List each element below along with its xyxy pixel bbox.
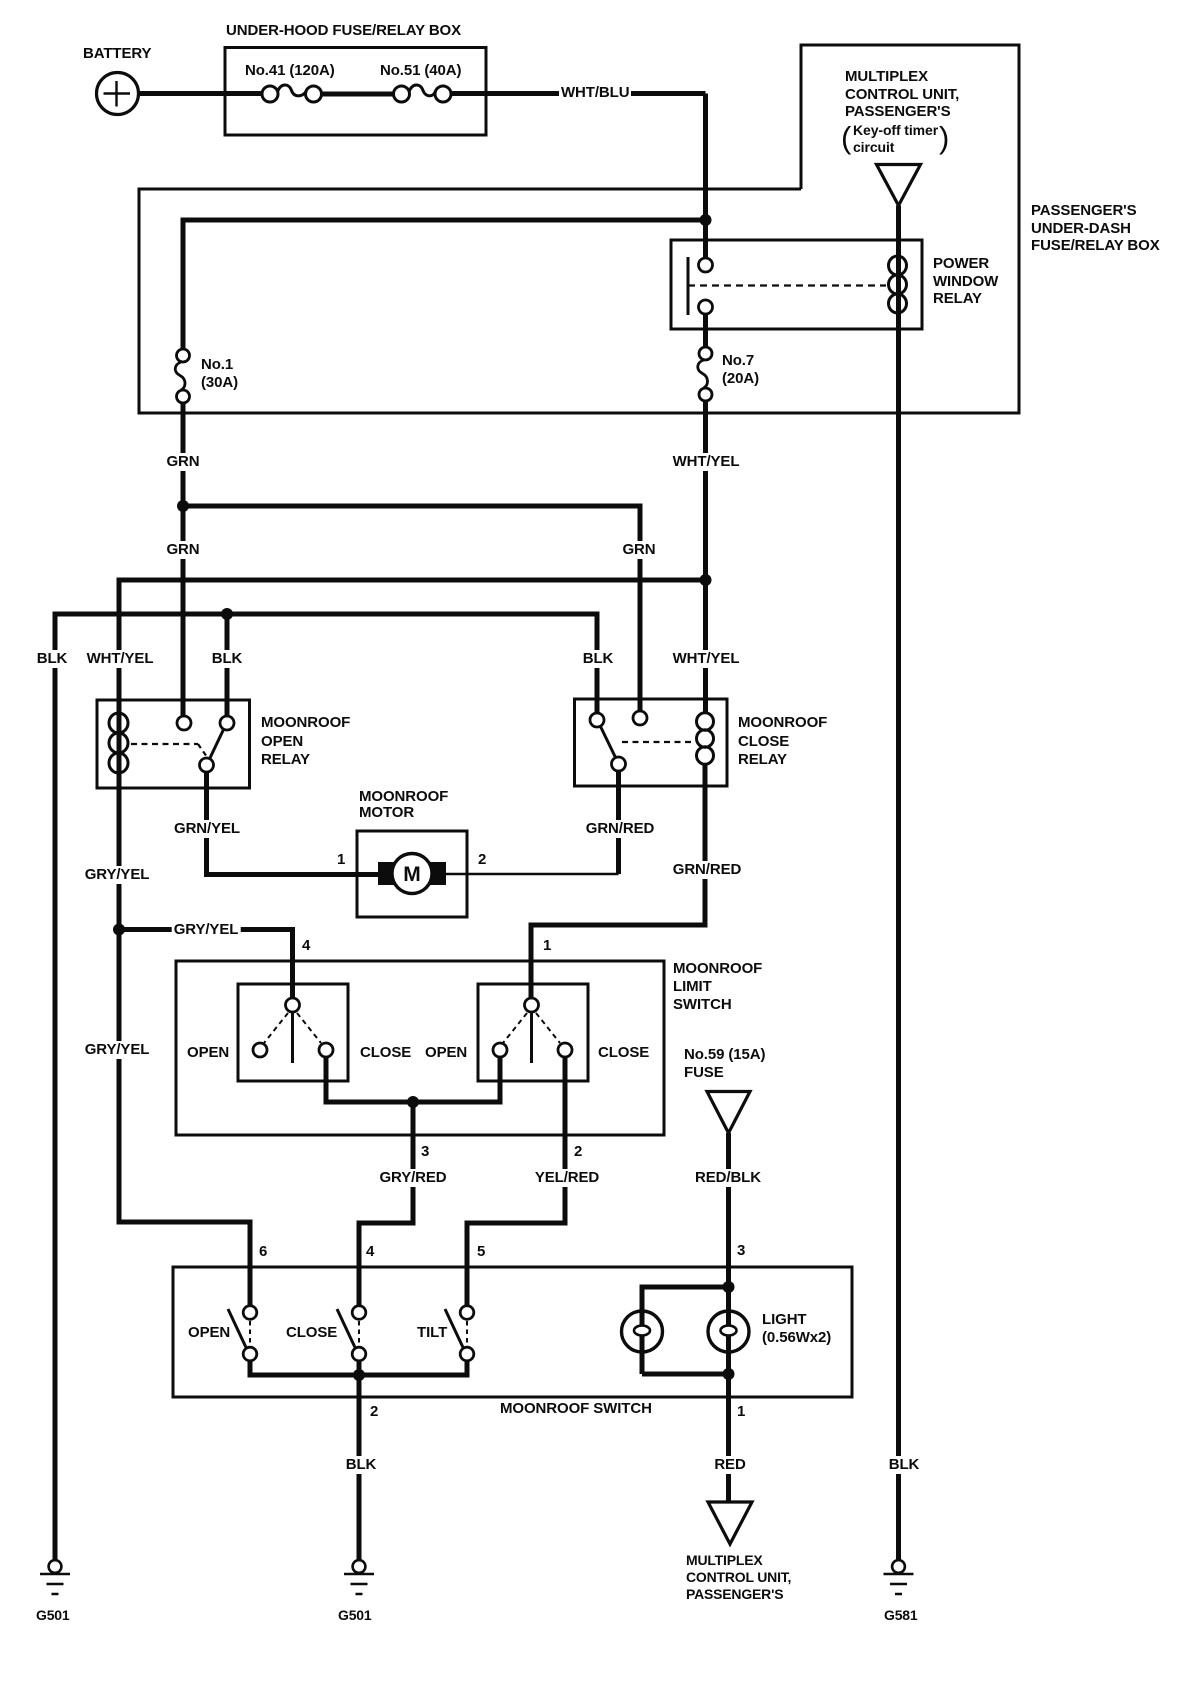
label G501 (middle) (338, 1607, 371, 1624)
node junction GRY/YEL (113, 924, 125, 936)
label GRN (mid-right) (620, 541, 657, 559)
under-hood fuse/relay box (225, 48, 486, 136)
label limit switch pin 3 (421, 1143, 429, 1161)
wire YEL/RED limit switch to moonroof switch pin 5 (467, 1057, 565, 1305)
lamp bus top (642, 1287, 729, 1374)
label GRN (mid-left) (164, 541, 201, 559)
label OPEN (limit right) (425, 1044, 467, 1062)
moonroof close relay coil (697, 713, 714, 765)
label motor pin 1 (337, 851, 345, 869)
fuse No.59 (15A) triangle (707, 1092, 750, 1134)
label paren right (939, 121, 949, 155)
wire BLK power window relay coil to ground G581 (896, 258, 901, 1560)
wire WHT/BLU vertical down to relay (703, 94, 708, 259)
label TILT (switch) (417, 1324, 447, 1342)
wire BLK to open relay (225, 614, 230, 716)
wire WHT/YEL fuse No.7 down to close relay coil (703, 401, 708, 713)
wire GRN branch to close relay (183, 506, 640, 711)
label switch pin 4 (366, 1243, 374, 1261)
label motor pin 2 (478, 851, 486, 869)
label UNDER-HOOD FUSE/RELAY BOX (226, 22, 461, 40)
label GRY/YEL (lower) (83, 1041, 152, 1059)
moonroof motor M1 (378, 854, 446, 894)
label switch pin 6 (259, 1243, 267, 1261)
label G581 (884, 1607, 917, 1624)
label BLK (open relay) (210, 650, 245, 668)
label key-off timer circuit (853, 122, 938, 155)
label MOONROOF LIMIT SWITCH (673, 960, 762, 1014)
moonroof open relay switch (131, 716, 234, 772)
moonroof open relay coil (109, 713, 128, 773)
label CLOSE (limit right) (598, 1044, 649, 1062)
moonroof switch box (173, 1267, 852, 1397)
node junction lamp bottom (723, 1368, 735, 1380)
wire motor pin 2 to close relay common (446, 873, 619, 876)
wire WHT/YEL branch to open relay coil (119, 580, 706, 775)
moonroof switch CLOSE contacts (337, 1306, 366, 1361)
wire moonroof switch common bus (250, 1361, 467, 1376)
label No.51 (40A) (380, 62, 461, 80)
wire bus to fuse No.1 (183, 220, 706, 349)
wire GRN fuse No.1 down to open relay contact (181, 403, 186, 716)
label switch pin 1 (737, 1403, 745, 1421)
label BLK (far left) (35, 650, 70, 668)
wire RED/BLK fuse to moonroof switch pin 3 (726, 1133, 731, 1287)
node junction lamp top (723, 1281, 735, 1293)
label MOONROOF SWITCH (500, 1400, 652, 1418)
wire GRY/YEL branch to limit switch pin 4 (119, 930, 293, 999)
label RED (bottom) (712, 1456, 747, 1474)
label GRN/RED (coil) (671, 861, 743, 879)
wire GRN/YEL open relay to motor pin 1 (207, 772, 379, 875)
lamp L1 (622, 1311, 663, 1352)
label GRN/RED (close common) (584, 820, 656, 838)
label LIGHT (0.56Wx2) (762, 1311, 831, 1347)
label MOONROOF OPEN RELAY (261, 714, 350, 770)
wire triangle to power window relay coil (896, 206, 901, 261)
label GRY/RED (377, 1169, 448, 1187)
label CLOSE (switch) (286, 1324, 337, 1342)
label OPEN (limit left) (187, 1044, 229, 1062)
label limit switch pin 4 (302, 937, 310, 955)
node junction limit switch output (407, 1096, 419, 1108)
node junction switch common (353, 1369, 365, 1381)
label GRY/YEL (branch) (172, 921, 241, 939)
label GRN (top) (164, 453, 201, 471)
ground G501 (left) (40, 1560, 70, 1594)
label WHT/YEL (top) (671, 453, 742, 471)
limit switch open-side contacts (253, 998, 333, 1063)
label BATTERY (83, 45, 151, 63)
ground G581 (right) (884, 1560, 914, 1594)
wire GRY/RED limit switch to moonroof switch pin 4 (359, 1102, 413, 1305)
power window relay box (671, 240, 922, 329)
label switch pin 5 (477, 1243, 485, 1261)
limit switch close-side inner box (478, 984, 588, 1081)
wire between fuses (322, 92, 394, 97)
moonroof open relay box (97, 700, 250, 788)
node junction WHT/BLU bus (700, 214, 712, 226)
node junction WHT/YEL (700, 574, 712, 586)
label No.1 (30A) (201, 356, 238, 392)
battery B1 (97, 73, 139, 115)
moonroof motor box (357, 831, 467, 917)
label MOONROOF CLOSE RELAY (738, 714, 827, 770)
label WHT/YEL (right) (671, 650, 742, 668)
label YEL/RED (533, 1169, 601, 1187)
label MULTIPLEX CONTROL UNIT PASSENGER'S (bottom) (686, 1552, 791, 1603)
wire battery to under-hood fuse box (139, 91, 263, 96)
fuse No.41 (120A) (262, 85, 322, 102)
limit switch close-side contacts (493, 998, 572, 1063)
multiplex control unit triangle (bottom) (708, 1502, 752, 1544)
lamp bus bottom (642, 1372, 729, 1377)
passenger's under-dash fuse/relay box outline (139, 45, 1019, 413)
label GRN/YEL (172, 820, 242, 838)
wire limit switch close contact to open contact bridge (326, 1057, 500, 1102)
label MULTIPLEX CONTROL UNIT PASSENGER'S (845, 68, 959, 121)
lamp L2 (708, 1311, 749, 1352)
label G501 (left) (36, 1607, 69, 1624)
label No.41 (120A) (245, 62, 335, 80)
label WHT/YEL (left) (85, 650, 156, 668)
label No.59 (15A) FUSE (684, 1046, 765, 1082)
label BLK (close relay) (581, 650, 616, 668)
fuse No.1 (30A) (175, 349, 189, 403)
label GRY/YEL (coil) (83, 866, 152, 884)
fuse No.7 (20A) (698, 347, 712, 401)
label BLK (bottom) (344, 1456, 379, 1474)
label MOONROOF MOTOR (359, 789, 448, 821)
wire WHT/BLU fuse box to corner (451, 91, 706, 96)
label BLK (right bottom) (887, 1456, 922, 1474)
multiplex control unit triangle (top) (877, 165, 921, 206)
svg-text:M: M (403, 863, 421, 886)
label WHT/BLU (559, 84, 631, 102)
label PASSENGER'S UNDER-DASH FUSE/RELAY BOX (1031, 202, 1160, 255)
wire BLK ground bus (55, 614, 597, 1560)
label No.7 (20A) (722, 352, 759, 388)
label CLOSE (limit left) (360, 1044, 411, 1062)
label OPEN (switch) (188, 1324, 230, 1342)
power window relay coil (889, 256, 907, 313)
fuse No.51 (40A) (394, 85, 452, 102)
wire GRN/RED close relay coil to limit switch pin 1 (531, 763, 705, 998)
wire BLK switch common to ground G501 (357, 1375, 362, 1560)
moonroof switch OPEN contacts (228, 1306, 257, 1361)
node junction GRN (177, 500, 189, 512)
label paren left (841, 121, 851, 155)
node junction BLK bus (221, 608, 233, 620)
label switch pin 3 (737, 1242, 745, 1260)
power window relay switch (688, 257, 886, 315)
label limit switch pin 1 (543, 937, 551, 955)
label POWER WINDOW RELAY (933, 255, 998, 308)
label switch pin 2 (370, 1403, 378, 1421)
label RED/BLK (693, 1169, 763, 1187)
moonroof limit switch outer box (176, 961, 664, 1135)
moonroof switch TILT contacts (445, 1306, 474, 1361)
label limit switch pin 2 (574, 1143, 582, 1161)
wire GRN/RED close relay common down (616, 771, 621, 874)
wire relay switch to fuse No.7 (703, 314, 708, 347)
ground G501 (middle) (344, 1560, 374, 1594)
moonroof close relay switch (590, 711, 694, 771)
limit switch open-side inner box (238, 984, 348, 1081)
wire GRY/YEL open relay coil down (119, 775, 250, 1305)
wire RED switch pin 1 to multiplex unit (726, 1374, 731, 1502)
moonroof close relay box (575, 699, 728, 786)
